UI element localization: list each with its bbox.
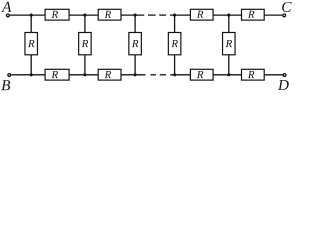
wire R8 to D xyxy=(264,74,282,76)
wire dashed break bottom xyxy=(150,74,166,76)
node label D xyxy=(278,80,289,90)
resistor R shunt 5 xyxy=(223,33,236,55)
wire R6 to break (bottom) xyxy=(121,74,145,76)
terminal D xyxy=(283,74,286,77)
wire R1 to R2 xyxy=(69,14,98,16)
resistor R shunt 3 xyxy=(129,33,142,55)
resistor R6 (bottom series 2) xyxy=(98,69,121,80)
resistor R5 (bottom series 1) xyxy=(45,69,69,80)
wire R3 to R4 xyxy=(213,14,241,16)
junction node bottom 2 xyxy=(83,73,86,76)
resistor R4 (top series 4) xyxy=(242,9,265,20)
terminal A xyxy=(7,14,10,17)
wire A to R1 xyxy=(10,14,45,16)
node label B xyxy=(1,80,10,90)
wire B to R5 xyxy=(11,74,45,76)
junction node top 1 xyxy=(30,14,33,17)
wire break to R7 (bottom) xyxy=(170,74,190,76)
resistor R1 (top series 1) xyxy=(45,9,69,20)
resistor R2 (top series 2) xyxy=(98,9,121,20)
wire R5 to R6 xyxy=(69,74,98,76)
wire dashed break top xyxy=(148,14,166,16)
junction node bottom 5 xyxy=(227,73,230,76)
junction node top 3 xyxy=(134,14,137,17)
terminal C xyxy=(283,14,286,17)
wire shunt 5 upper xyxy=(228,15,230,32)
resistor R8 (bottom series 4) xyxy=(242,69,265,80)
node label A xyxy=(1,2,11,12)
resistor R shunt 1 xyxy=(25,33,38,55)
wire shunt 3 lower xyxy=(134,55,136,75)
wire shunt 4 upper xyxy=(174,15,176,32)
junction node bottom 3 xyxy=(134,73,137,76)
junction node bottom 1 xyxy=(30,73,33,76)
wire shunt 1 lower xyxy=(30,55,32,75)
wire shunt 1 upper xyxy=(30,15,32,32)
wire R4 to C xyxy=(264,14,282,16)
junction node bottom 4 xyxy=(173,73,176,76)
wire R2 to break (top) xyxy=(121,14,144,16)
wire shunt 2 lower xyxy=(84,55,86,75)
wire shunt 5 lower xyxy=(228,55,230,75)
resistor R shunt 2 xyxy=(79,33,92,55)
wire R7 to R8 xyxy=(213,74,241,76)
wire shunt 4 lower xyxy=(174,55,176,75)
junction node top 5 xyxy=(227,14,230,17)
resistor R3 (top series 3) xyxy=(190,9,213,20)
wire break to R3 (top) xyxy=(170,14,191,16)
resistor R shunt 4 xyxy=(168,33,181,55)
resistor R7 (bottom series 3) xyxy=(190,69,213,80)
junction node top 4 xyxy=(173,14,176,17)
terminal B xyxy=(8,74,11,77)
node label C xyxy=(282,2,291,12)
wire shunt 3 upper xyxy=(134,15,136,32)
junction node top 2 xyxy=(83,14,86,17)
wire shunt 2 upper xyxy=(84,15,86,32)
